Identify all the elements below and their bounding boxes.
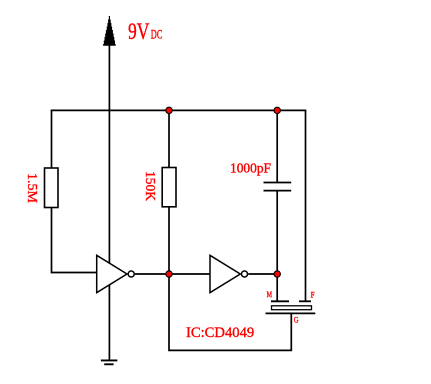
svg-text:150K: 150K xyxy=(143,171,158,201)
svg-text:M: M xyxy=(267,289,273,299)
node B junction (U1B out / C1 / crystal M) xyxy=(274,271,280,277)
wire 150K bottom to node A xyxy=(168,206,170,275)
svg-text:G: G xyxy=(294,315,299,325)
svg-text:DC: DC xyxy=(151,28,163,42)
wire U1B output (bubble to node B) xyxy=(248,273,277,275)
resistor R2 body xyxy=(162,168,176,207)
wire 150K top xyxy=(168,110,170,168)
crystal Y1 body xyxy=(272,306,312,310)
wire left branch top (rail to R1) xyxy=(51,110,53,169)
wire U1B input (node A to U1B) xyxy=(169,273,210,275)
svg-text:9V: 9V xyxy=(128,19,149,45)
wire feedback (node A down, along bottom, to crystal pin G) xyxy=(169,274,291,350)
wire right rail down (to crystal pin F) xyxy=(305,110,307,301)
svg-text:F: F xyxy=(311,290,315,300)
svg-text:1.5M: 1.5M xyxy=(25,173,40,203)
node A junction (U1A out / R2 / U1B in / feedback) xyxy=(166,271,172,277)
inverter U1A xyxy=(97,255,169,292)
wire VDD vertical (9V rail down through U1A to ground) xyxy=(108,45,110,360)
crystal Y1 (3-pin ceramic resonator) plates xyxy=(266,301,316,313)
svg-text:1000pF: 1000pF xyxy=(230,161,271,176)
wire top supply rail xyxy=(51,109,307,111)
resistor R1 body xyxy=(45,168,59,208)
wire cap branch top (rail to C1) xyxy=(276,110,278,182)
wire left branch bottom + U1A input xyxy=(52,206,98,273)
svg-text:IC:CD4049: IC:CD4049 xyxy=(186,325,254,341)
inverter U1B xyxy=(210,255,248,292)
wire cap branch bottom (C1 to node B to crystal pin M) xyxy=(276,191,278,301)
capacitor C1 plates xyxy=(264,183,292,191)
ground xyxy=(101,360,118,364)
power arrow 9VDC xyxy=(103,16,116,46)
node junction rail-R2 xyxy=(166,107,172,113)
node junction rail-C1 xyxy=(274,107,280,113)
